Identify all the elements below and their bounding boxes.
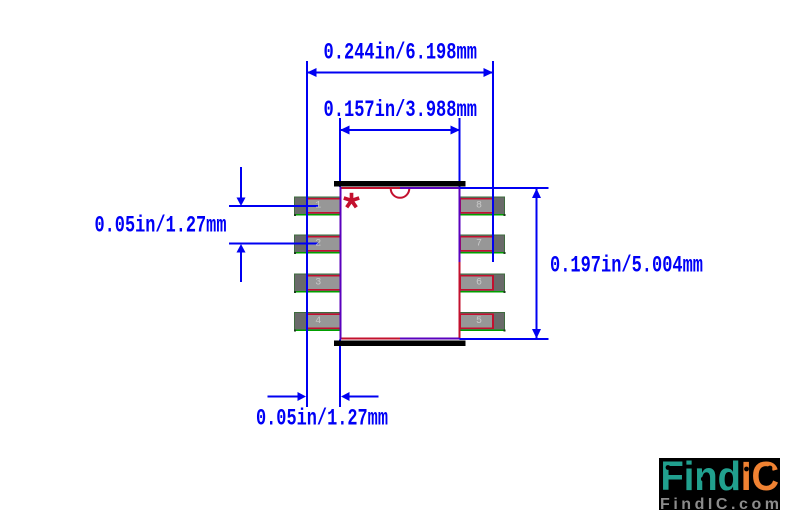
svg-text:0.05in/1.27mm: 0.05in/1.27mm [95,213,227,239]
svg-text:6: 6 [476,278,482,289]
svg-text:0.05in/1.27mm: 0.05in/1.27mm [256,406,388,432]
pad 7 number [476,239,482,250]
FindIC logo circuit dots [666,465,773,484]
pin-1 marker asterisk [344,193,359,208]
overall-width dimension right arrowhead [484,68,494,77]
IC body outline purple right-upper edge [459,187,461,262]
dimension text 0.197in/5.004mm [550,253,703,279]
pad 6 number [476,278,482,289]
body-width dimension right arrowhead [451,126,461,135]
svg-text:4: 4 [315,316,321,327]
body-length dimension vertical line [536,189,538,338]
body-length dimension up arrowhead [532,189,541,199]
IC body outline purple bottom-right overlap segment [400,338,460,340]
dimension text 0.05in/1.27mm bottom [256,406,388,432]
body-width dimension left arrowhead [340,126,350,135]
pad 4 number [315,316,321,327]
pad 6 [460,274,506,293]
FindIC logo background [659,458,780,510]
pitch dimension lower vertical line [240,251,242,282]
svg-text:7: 7 [476,239,482,250]
overall-width dimension left arrowhead [307,68,317,77]
IC body outline purple top-right overlap segment [400,187,460,189]
body-width left extension line upper [339,118,341,187]
body-length top extension line [460,187,549,189]
edge-offset dimension left-pointing arrowhead [341,392,350,401]
pad 2 number [315,239,321,250]
pad 2 [294,235,341,254]
pitch dimension down arrowhead [237,198,246,207]
edge-offset dimension left line [268,396,299,398]
IC body bottom bar [334,341,465,347]
pad 2 leader line [229,243,319,245]
svg-text:FindIC: FindIC [661,453,780,499]
FindIC logo wordmark [661,453,780,499]
pad 5 [460,313,506,332]
svg-text:0.157in/3.988mm: 0.157in/3.988mm [324,97,478,123]
pad 8 [460,197,506,216]
pad 3 [294,274,341,293]
svg-text:3: 3 [315,278,321,289]
body-length bottom extension line [460,338,549,340]
body-width dimension line [341,129,459,131]
pad 4 [294,313,341,332]
dimension text 0.244in/6.198mm [324,40,478,66]
IC body outline purple left edge [340,187,342,340]
pad 3 number [315,278,321,289]
edge-offset dimension right-pointing arrowhead [298,392,307,401]
pad 5 number [476,316,482,327]
dimension text 0.157in/3.988mm [324,97,478,123]
edge-offset dimension right line [349,396,379,398]
svg-text:0.197in/5.004mm: 0.197in/5.004mm [550,253,703,279]
svg-text:5: 5 [476,316,482,327]
FindIC.com logo subtext [660,496,779,513]
overall-width dimension line [308,72,492,74]
pad 1 leader line [229,205,319,207]
pad 1 number [315,201,321,212]
body-width left extension line lower [339,340,341,408]
svg-text:1: 1 [315,201,321,212]
IC body outline red bottom segment [341,338,401,340]
overall-width left extension line [306,61,308,407]
pitch dimension upper vertical line [240,167,242,199]
body-length dimension down arrowhead [532,329,541,339]
svg-text:0.244in/6.198mm: 0.244in/6.198mm [324,40,478,66]
pad 7 [460,235,506,254]
svg-text:8: 8 [476,201,482,212]
IC body outline red top segment [341,187,401,189]
IC body top bar [334,181,465,187]
overall-width right extension line [492,61,494,262]
pitch dimension up arrowhead [237,244,246,253]
pad 1 [294,197,341,216]
IC body outline red right-lower segment [459,262,461,339]
pad 8 number [476,201,482,212]
pin-1 notch semicircle [391,189,410,198]
dimension text 0.05in/1.27mm left [95,213,227,239]
body-width right extension line upper [459,118,461,187]
svg-text:2: 2 [315,239,321,250]
